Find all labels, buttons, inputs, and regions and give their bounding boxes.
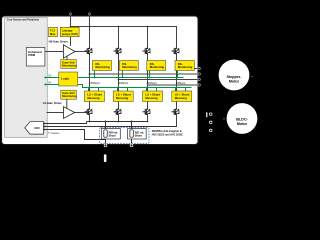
svg-text:ADC: ADC [34,126,40,130]
svg-text:Monitoring: Monitoring [122,65,137,69]
svg-text:LS-Gate_Driver: LS-Gate_Driver [43,101,62,105]
svg-text:Monitoring: Monitoring [150,65,165,69]
svg-text:OS: OS [48,75,52,77]
svg-text:RS0/RS1 nicht integriert in: RS0/RS1 nicht integriert in [152,130,183,133]
svg-text:HVC 5222C und HVC 5220C: HVC 5222C und HVC 5220C [152,133,183,136]
svg-text:Messung: Messung [116,96,128,100]
svg-text:Motor: Motor [229,79,240,83]
svg-text:Shunt: Shunt [109,135,116,138]
svg-text:pumpe (V CP): pumpe (V CP) [62,33,78,36]
svg-text:Motor: Motor [237,122,248,126]
svg-text:Monitoring: Monitoring [178,65,193,69]
svg-text:→ R DS(on): → R DS(on) [173,83,185,85]
svg-text:Messung: Messung [87,96,99,100]
svg-text:Logic: Logic [61,77,70,81]
svg-text:Monitoring: Monitoring [62,64,77,68]
svg-text:Mon.: Mon. [50,33,56,36]
svg-text:Monitoring: Monitoring [62,94,77,98]
svg-text:HS-Gate_Driver: HS-Gate_Driver [49,39,68,43]
svg-text:→ R DS(on): → R DS(on) [145,83,157,85]
svg-text:→ R DS(on): → R DS(on) [88,83,100,85]
svg-text:Core-System und Peripherie: Core-System und Peripherie [7,19,40,22]
svg-text:Shunt: Shunt [135,135,142,138]
svg-text:PWM: PWM [28,53,36,57]
svg-text:Messung: Messung [145,96,157,100]
svg-text:Monitoring: Monitoring [95,65,110,69]
svg-text:T messen: T messen [48,132,60,135]
svg-text:Messung: Messung [175,96,187,100]
svg-text:→ R DS(on): → R DS(on) [116,83,128,85]
